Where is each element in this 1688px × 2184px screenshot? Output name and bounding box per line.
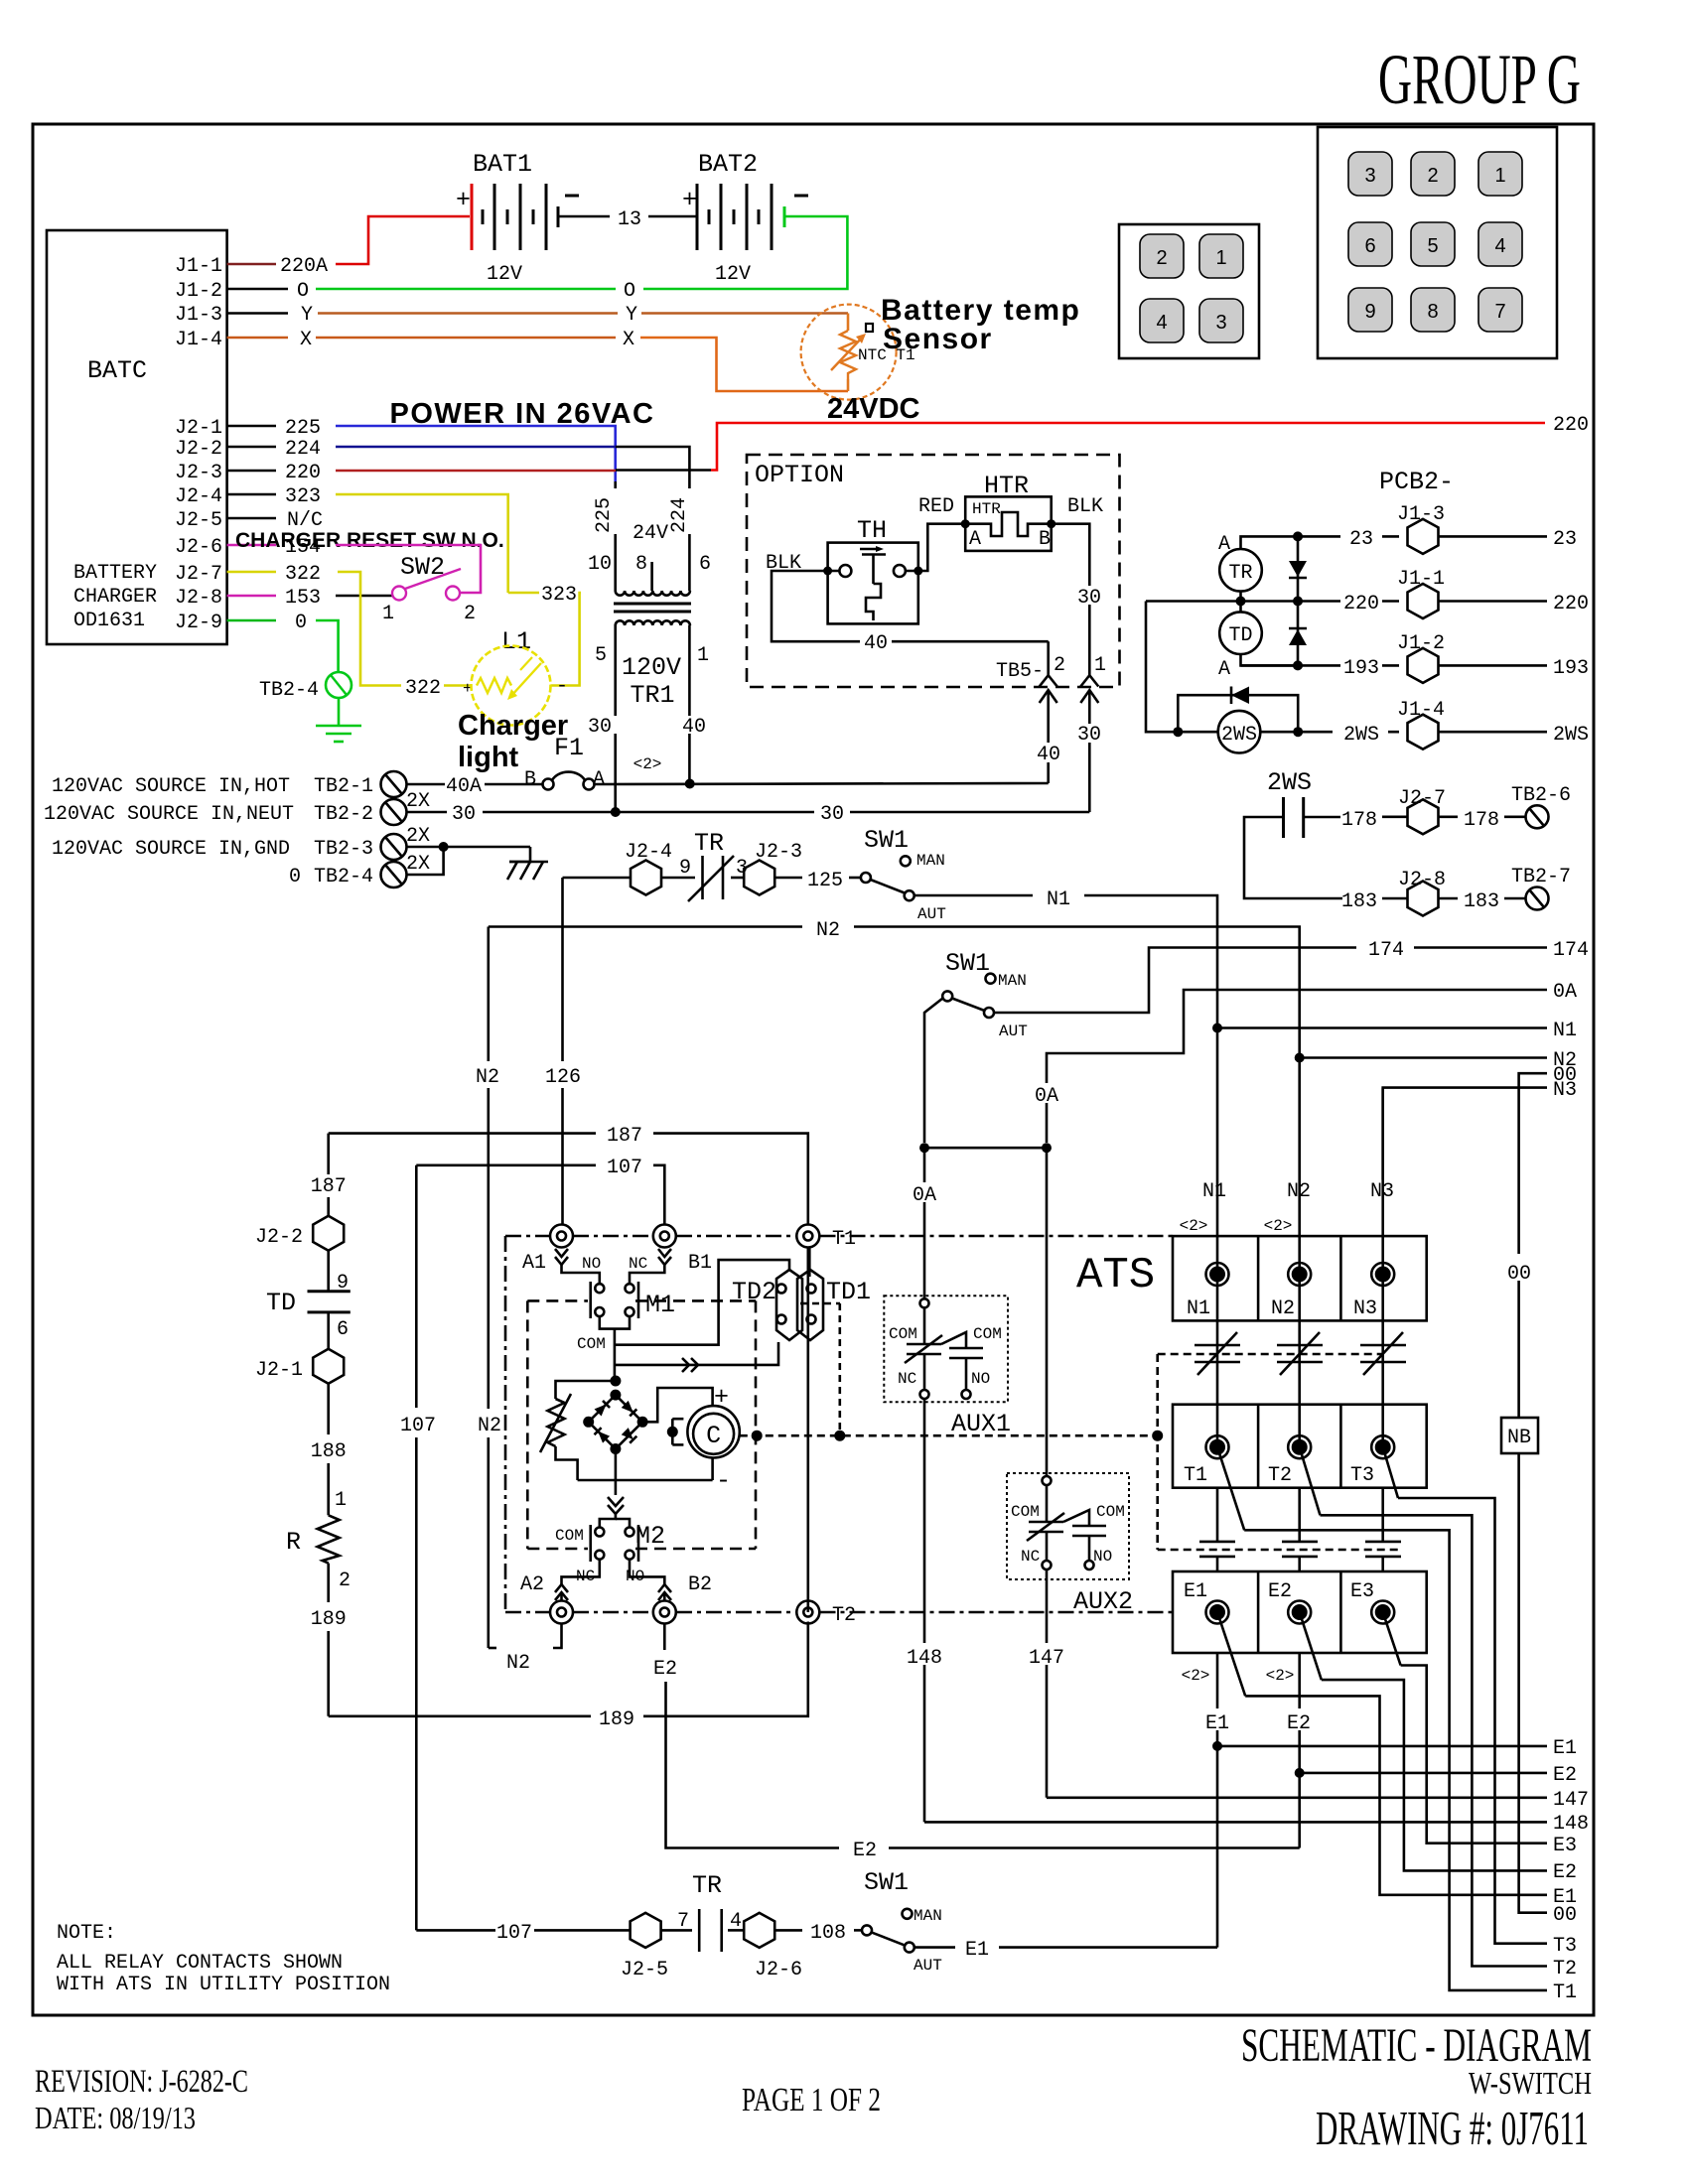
relay M2 contacts bbox=[555, 1522, 665, 1585]
svg-text:N2: N2 bbox=[816, 919, 840, 942]
svg-text:2: 2 bbox=[464, 603, 476, 625]
svg-text:TR: TR bbox=[692, 1871, 722, 1900]
svg-text:6: 6 bbox=[1364, 235, 1375, 257]
svg-text:T1: T1 bbox=[1553, 1981, 1577, 2004]
svg-text:225: 225 bbox=[593, 497, 616, 533]
svg-text:2: 2 bbox=[1156, 247, 1167, 269]
svg-text:<2>: <2> bbox=[1266, 1667, 1295, 1685]
svg-text:24V: 24V bbox=[633, 522, 668, 545]
svg-text:BLK: BLK bbox=[1067, 495, 1103, 518]
switch SW1 lower auto bbox=[924, 949, 1028, 1143]
screw terminal TB2-4 lower bbox=[381, 853, 431, 887]
svg-text:40A: 40A bbox=[446, 775, 482, 798]
wire 40 fuse to TB5-2 bbox=[595, 755, 1049, 789]
terminal T1 bbox=[796, 1225, 856, 1613]
svg-text:1: 1 bbox=[697, 644, 709, 667]
svg-text:TB2-4: TB2-4 bbox=[259, 679, 319, 702]
transformer TR1 primary leads bbox=[588, 470, 711, 591]
svg-text:+: + bbox=[456, 186, 471, 214]
svg-text:TH: TH bbox=[857, 516, 887, 545]
svg-text:TR1: TR1 bbox=[630, 681, 674, 710]
svg-text:174: 174 bbox=[1553, 939, 1589, 962]
svg-text:T1: T1 bbox=[832, 1228, 856, 1251]
wire 188 bbox=[311, 1384, 347, 1516]
motor C bbox=[667, 1383, 740, 1495]
wire 178 row with connector J2-7 and TB2-6 bbox=[1341, 784, 1571, 834]
svg-text:J2-5: J2-5 bbox=[621, 1959, 668, 1981]
terminal A1 bbox=[522, 1225, 600, 1285]
svg-text:10: 10 bbox=[588, 553, 612, 576]
svg-text:9: 9 bbox=[1364, 301, 1375, 323]
svg-text:N1: N1 bbox=[1553, 1020, 1577, 1042]
svg-text:E2: E2 bbox=[1553, 1861, 1577, 1884]
wire HTR B down to TB5-1 bbox=[1052, 524, 1104, 676]
wire 225 blue to transformer primary bbox=[336, 426, 616, 481]
svg-text:2X: 2X bbox=[406, 790, 430, 813]
wire 153 to SW2 pole 1 bbox=[336, 595, 392, 598]
svg-text:183: 183 bbox=[1464, 890, 1499, 913]
svg-text:<2>: <2> bbox=[1182, 1667, 1210, 1685]
svg-text:A: A bbox=[1218, 658, 1230, 681]
svg-text:J2-2: J2-2 bbox=[175, 438, 222, 461]
terminal TB5-1 bbox=[1077, 654, 1106, 812]
svg-text:8: 8 bbox=[1427, 301, 1438, 323]
terminal T2 bbox=[796, 1601, 856, 1628]
svg-text:1: 1 bbox=[1094, 654, 1106, 677]
pin J1-1 bbox=[175, 255, 328, 278]
svg-text:1: 1 bbox=[382, 603, 394, 625]
svg-text:2: 2 bbox=[1427, 165, 1438, 187]
wire 0 green J2-9 to TB2-4 screw bbox=[316, 620, 339, 672]
svg-text:MAN: MAN bbox=[916, 852, 945, 870]
svg-text:J2-5: J2-5 bbox=[175, 509, 222, 532]
svg-text:189: 189 bbox=[311, 1608, 347, 1631]
svg-text:A: A bbox=[593, 768, 605, 791]
connector J2-2 bbox=[255, 1216, 344, 1251]
relay contact TR bottom row with J2-5 J2-6 bbox=[416, 1871, 862, 1981]
svg-text:J1-4: J1-4 bbox=[1397, 699, 1445, 722]
svg-text:2WS: 2WS bbox=[1221, 724, 1257, 747]
svg-text:J2-6: J2-6 bbox=[755, 1959, 802, 1981]
svg-text:Y: Y bbox=[301, 304, 313, 327]
svg-text:AUX1: AUX1 bbox=[951, 1410, 1011, 1438]
svg-text:193: 193 bbox=[1343, 657, 1379, 680]
svg-text:<2>: <2> bbox=[1264, 1217, 1293, 1235]
ATS E row boxes bbox=[1173, 1571, 1427, 1685]
svg-text:-: - bbox=[556, 675, 568, 698]
svg-text:322: 322 bbox=[285, 563, 321, 586]
svg-text:B: B bbox=[1039, 528, 1051, 551]
svg-text:ALL RELAY CONTACTS SHOWN: ALL RELAY CONTACTS SHOWN bbox=[57, 1952, 343, 1975]
svg-text:DATE: 08/19/13: DATE: 08/19/13 bbox=[35, 2100, 196, 2135]
svg-text:126: 126 bbox=[545, 1066, 581, 1089]
svg-text:6: 6 bbox=[337, 1318, 349, 1341]
wire TH left to 40 leg bbox=[772, 571, 1049, 641]
svg-text:23: 23 bbox=[1349, 528, 1373, 551]
E row blade taps to right rails bbox=[1217, 1612, 1547, 1895]
timer contact TD bbox=[266, 1251, 351, 1349]
svg-text:N3: N3 bbox=[1353, 1297, 1377, 1320]
svg-text:E3: E3 bbox=[1553, 1835, 1577, 1857]
svg-text:TB2-2: TB2-2 bbox=[314, 803, 373, 826]
svg-text:MAN: MAN bbox=[914, 1907, 942, 1925]
wire M1 COM to TD2 and bridge bbox=[615, 1260, 789, 1381]
svg-text:OD1631: OD1631 bbox=[73, 610, 145, 632]
pin J1-2 bbox=[175, 280, 309, 303]
relay coil 2WS with bypass diode bbox=[1146, 602, 1303, 753]
ATS transfer blades N to T bbox=[1195, 1275, 1406, 1447]
svg-text:TB2-3: TB2-3 bbox=[314, 838, 373, 861]
svg-text:J2-8: J2-8 bbox=[1398, 869, 1446, 891]
svg-text:N1: N1 bbox=[1047, 888, 1070, 911]
wire 224 navy to transformer primary bbox=[336, 447, 689, 470]
dashed motor linkage to ATS bbox=[740, 1354, 1399, 1550]
svg-text:TD: TD bbox=[1228, 624, 1252, 647]
svg-text:NC: NC bbox=[898, 1370, 916, 1388]
svg-text:1: 1 bbox=[335, 1489, 347, 1512]
pin J2-6 bbox=[175, 536, 321, 559]
svg-text:O: O bbox=[297, 280, 309, 303]
wire E2 row from B2 label bbox=[839, 1838, 889, 1862]
svg-text:174: 174 bbox=[1368, 939, 1404, 962]
svg-text:-: - bbox=[716, 1466, 731, 1495]
svg-text:107: 107 bbox=[607, 1157, 642, 1179]
relay contact TR with J2-4 J2-3 bbox=[563, 829, 862, 901]
wire 187 row bbox=[329, 1125, 808, 1225]
svg-text:Charger: Charger bbox=[458, 710, 568, 742]
svg-text:107: 107 bbox=[400, 1415, 436, 1437]
svg-text:T2: T2 bbox=[832, 1604, 856, 1627]
svg-text:+: + bbox=[682, 186, 697, 214]
svg-text:N1: N1 bbox=[1202, 1180, 1226, 1203]
wire 193 row with connector J1-2 bbox=[1241, 632, 1590, 683]
svg-text:J2-1: J2-1 bbox=[175, 417, 222, 440]
fuse F1 bbox=[524, 734, 605, 791]
switch SW1 upper bbox=[861, 826, 946, 923]
svg-text:NO: NO bbox=[582, 1255, 601, 1273]
transformer TR1 primary coil bbox=[616, 591, 690, 596]
svg-text:J1-3: J1-3 bbox=[1397, 503, 1445, 526]
BATC battery charger box bbox=[47, 230, 227, 644]
svg-text:B1: B1 bbox=[688, 1252, 712, 1275]
svg-text:9: 9 bbox=[679, 857, 691, 880]
svg-text:TR: TR bbox=[1228, 562, 1252, 585]
svg-text:BATC: BATC bbox=[87, 356, 147, 385]
screw terminal TB2-2 bbox=[381, 790, 431, 825]
terminal B1 bbox=[630, 1225, 712, 1285]
svg-text:0A: 0A bbox=[913, 1184, 936, 1207]
svg-text:TB2-6: TB2-6 bbox=[1511, 784, 1571, 807]
wire N1 right rail bbox=[1212, 1020, 1577, 1042]
svg-text:108: 108 bbox=[810, 1922, 846, 1945]
wire 40A from TB2-1 to fuse bbox=[407, 774, 544, 798]
svg-text:A1: A1 bbox=[522, 1252, 546, 1275]
svg-text:193: 193 bbox=[1553, 657, 1589, 680]
svg-text:BAT2: BAT2 bbox=[698, 150, 758, 179]
wire 00 right rail to NB column bbox=[1519, 1064, 1577, 1254]
wire TH to HTR A bbox=[906, 524, 965, 571]
svg-text:X: X bbox=[623, 329, 634, 351]
svg-text:O: O bbox=[624, 280, 635, 303]
svg-text:COM: COM bbox=[973, 1325, 1002, 1343]
capacitor 2WS contact bbox=[1244, 768, 1342, 898]
connector pin grid 2x2 bbox=[1119, 224, 1259, 358]
svg-text:AUT: AUT bbox=[917, 905, 946, 923]
svg-text:A: A bbox=[969, 528, 981, 551]
wire 187 column J2-2 TD J2-1 R chain bbox=[311, 1134, 347, 1216]
pin J2-5 bbox=[175, 509, 323, 532]
svg-text:323: 323 bbox=[285, 485, 321, 508]
svg-text:322: 322 bbox=[405, 677, 441, 700]
svg-text:B2: B2 bbox=[688, 1573, 712, 1596]
svg-text:2X: 2X bbox=[406, 853, 430, 876]
svg-text:J1-4: J1-4 bbox=[175, 329, 222, 351]
right rail labels E3 E2 E1 bbox=[1553, 1835, 1577, 1909]
svg-text:J2-3: J2-3 bbox=[175, 462, 222, 484]
svg-text:T2: T2 bbox=[1268, 1464, 1292, 1487]
svg-text:MAN: MAN bbox=[998, 972, 1027, 990]
svg-text:COM: COM bbox=[889, 1325, 917, 1343]
svg-text:TB2-4: TB2-4 bbox=[314, 866, 373, 888]
time delay contacts TD2 TD1 bbox=[732, 1248, 871, 1436]
svg-text:AUT: AUT bbox=[914, 1957, 942, 1975]
svg-text:COM: COM bbox=[1011, 1503, 1040, 1521]
svg-text:OPTION: OPTION bbox=[755, 461, 844, 489]
svg-text:224: 224 bbox=[668, 497, 691, 533]
svg-text:<2>: <2> bbox=[633, 755, 662, 773]
svg-text:TD1: TD1 bbox=[826, 1278, 871, 1306]
svg-text:C: C bbox=[706, 1422, 721, 1450]
bridge rectifier bbox=[583, 1376, 647, 1455]
wire Y to battery temp sensor bbox=[318, 304, 848, 327]
svg-text:220: 220 bbox=[285, 462, 321, 484]
svg-text:light: light bbox=[458, 742, 519, 773]
svg-text:RED: RED bbox=[918, 495, 954, 518]
transformer TR1 secondary coil bbox=[616, 620, 690, 625]
svg-text:2: 2 bbox=[339, 1570, 351, 1592]
ATS T row boxes bbox=[1173, 1405, 1427, 1488]
relay coil TD bbox=[1218, 612, 1298, 681]
svg-text:E2: E2 bbox=[1268, 1580, 1292, 1603]
wire N2 row bbox=[489, 919, 1300, 1058]
svg-text:R: R bbox=[286, 1528, 301, 1557]
wire 147 from AUX2 down bbox=[1028, 1570, 1065, 1798]
svg-text:HTR: HTR bbox=[972, 500, 1001, 518]
varistor bbox=[540, 1381, 615, 1480]
connector pin grid 3x3 bbox=[1318, 127, 1557, 358]
label 40 inside option bbox=[860, 631, 892, 655]
chassis ground bbox=[507, 847, 548, 880]
wire 2WS row with connector J1-4 bbox=[1298, 699, 1589, 750]
pin J2-4 bbox=[175, 485, 321, 508]
svg-text:120VAC SOURCE IN,NEUT: 120VAC SOURCE IN,NEUT bbox=[44, 803, 294, 826]
pin J2-9 bbox=[175, 612, 307, 634]
svg-text:J2-6: J2-6 bbox=[175, 536, 222, 559]
screw terminal TB2-3 bbox=[381, 825, 431, 860]
T row blade taps to right rails bbox=[1217, 1447, 1547, 1990]
svg-text:SW1: SW1 bbox=[864, 1868, 909, 1897]
wire motor output chevrons to M2 bbox=[600, 1497, 630, 1528]
battery BAT2 bbox=[682, 150, 808, 286]
svg-text:SW1: SW1 bbox=[864, 826, 909, 855]
svg-text:W-SWITCH: W-SWITCH bbox=[1469, 2065, 1592, 2101]
svg-text:E2: E2 bbox=[853, 1840, 877, 1862]
resistor R bbox=[286, 1515, 340, 1563]
relay coil TR bbox=[1218, 533, 1298, 612]
svg-text:2WS: 2WS bbox=[1553, 724, 1589, 747]
wire 174 from SW1 to right rail bbox=[994, 939, 1589, 1013]
svg-text:120VAC SOURCE IN,GND: 120VAC SOURCE IN,GND bbox=[52, 838, 290, 861]
wire 323 yellow J2-4 to label bbox=[336, 494, 581, 686]
svg-text:DRAWING #: 0J7611: DRAWING #: 0J7611 bbox=[1316, 2101, 1589, 2155]
wire 107 row bbox=[400, 1157, 664, 1930]
svg-text:REVISION: J-6282-C: REVISION: J-6282-C bbox=[35, 2064, 248, 2100]
svg-text:NO: NO bbox=[971, 1370, 990, 1388]
svg-text:220: 220 bbox=[1553, 414, 1589, 437]
svg-text:E2: E2 bbox=[1287, 1712, 1311, 1735]
svg-text:148: 148 bbox=[1553, 1813, 1589, 1836]
svg-text:E3: E3 bbox=[1350, 1580, 1374, 1603]
wire N2 vertical bbox=[476, 927, 501, 1649]
wire 0A from right rail to AUX2 column bbox=[1033, 981, 1577, 1143]
svg-text:SW1: SW1 bbox=[945, 949, 990, 978]
wire 126 vertical to A1 bbox=[545, 878, 581, 1225]
svg-text:5: 5 bbox=[1427, 235, 1438, 257]
wire 220 row with connector J1-1 bbox=[1146, 568, 1589, 618]
svg-text:0A: 0A bbox=[1553, 981, 1577, 1004]
svg-text:PAGE 1 OF 2: PAGE 1 OF 2 bbox=[742, 2082, 881, 2118]
wire 148 from AUX1 down bbox=[906, 1399, 943, 1822]
pin J1-4 bbox=[175, 329, 312, 351]
svg-text:178: 178 bbox=[1341, 809, 1377, 832]
svg-text:7: 7 bbox=[677, 1910, 689, 1933]
svg-text:E1: E1 bbox=[1184, 1580, 1207, 1603]
svg-text:N1: N1 bbox=[1187, 1297, 1210, 1320]
svg-text:COM: COM bbox=[555, 1527, 584, 1545]
wire bridge plus to motor bbox=[642, 1388, 713, 1422]
wire N3 right rail to ATS column bbox=[1383, 1079, 1577, 1180]
svg-text:7: 7 bbox=[1494, 301, 1505, 323]
svg-text:N2: N2 bbox=[478, 1415, 501, 1437]
svg-text:30: 30 bbox=[820, 803, 844, 826]
pin J2-7 bbox=[175, 563, 321, 586]
svg-text:220A: 220A bbox=[280, 255, 328, 278]
wire bridge minus motor minus bbox=[578, 1449, 713, 1496]
svg-text:225: 225 bbox=[285, 417, 321, 440]
svg-text:153: 153 bbox=[285, 587, 321, 610]
svg-text:Sensor: Sensor bbox=[883, 323, 993, 355]
pin J2-1 bbox=[175, 417, 321, 440]
svg-text:M2: M2 bbox=[635, 1522, 665, 1551]
svg-text:NC: NC bbox=[1021, 1548, 1040, 1566]
svg-text:NC: NC bbox=[629, 1255, 647, 1273]
svg-text:T2: T2 bbox=[1553, 1958, 1577, 1980]
svg-text:N2: N2 bbox=[1271, 1297, 1295, 1320]
rails T3 T2 T1 labels bbox=[1553, 1935, 1577, 2004]
terminal B2 bbox=[653, 1573, 1300, 1848]
svg-text:B: B bbox=[524, 768, 536, 791]
svg-text:J2-9: J2-9 bbox=[175, 612, 222, 634]
svg-text:3: 3 bbox=[1364, 165, 1375, 187]
dash-dot linkage row A2 B2 T2 bbox=[505, 1611, 1175, 1614]
svg-text:<2>: <2> bbox=[1180, 1217, 1208, 1235]
svg-text:X: X bbox=[300, 329, 312, 351]
svg-text:4: 4 bbox=[1494, 235, 1505, 257]
svg-text:125: 125 bbox=[807, 870, 843, 892]
terminal A2 bbox=[506, 1573, 573, 1675]
svg-text:0A: 0A bbox=[1035, 1085, 1058, 1108]
wire TB2-3 ground bbox=[407, 842, 531, 852]
wire 0 green BAT2 minus to J1-2 bbox=[316, 216, 847, 303]
svg-text:E1: E1 bbox=[1205, 1712, 1229, 1735]
wire 148 rail bbox=[924, 1813, 1589, 1836]
svg-text:189: 189 bbox=[599, 1708, 634, 1731]
dashed enclosure box M1 M2 bridge bbox=[527, 1300, 756, 1549]
pin J2-2 bbox=[175, 438, 321, 461]
svg-text:120V: 120V bbox=[622, 653, 681, 682]
svg-text:178: 178 bbox=[1464, 809, 1499, 832]
svg-text:M1: M1 bbox=[645, 1291, 675, 1319]
svg-text:187: 187 bbox=[311, 1175, 347, 1198]
svg-text:AUT: AUT bbox=[999, 1023, 1028, 1040]
svg-text:N2: N2 bbox=[476, 1066, 499, 1089]
svg-text:188: 188 bbox=[311, 1440, 347, 1463]
svg-text:147: 147 bbox=[1553, 1789, 1589, 1812]
svg-text:148: 148 bbox=[907, 1647, 942, 1670]
wire 322 yellow J2-7 to charger light bbox=[338, 572, 568, 700]
svg-text:24VDC: 24VDC bbox=[827, 393, 920, 425]
ATS N row column wires and labels bbox=[1180, 1028, 1395, 1287]
pin J2-8 bbox=[175, 587, 321, 610]
aux switch AUX2 bbox=[1007, 1473, 1133, 1616]
svg-text:4: 4 bbox=[1156, 312, 1167, 334]
dash-dot linkage row A1 B1 T1 bbox=[505, 1235, 1173, 1238]
svg-text:TR: TR bbox=[694, 829, 724, 858]
svg-text:BAT1: BAT1 bbox=[473, 150, 532, 179]
svg-text:NO: NO bbox=[1093, 1548, 1112, 1566]
wire N2 right rail bbox=[1295, 1049, 1577, 1072]
svg-text:23: 23 bbox=[1553, 528, 1577, 551]
svg-text:J1-3: J1-3 bbox=[175, 304, 222, 327]
svg-text:E2: E2 bbox=[1553, 1764, 1577, 1787]
svg-text:147: 147 bbox=[1029, 1647, 1064, 1670]
pin J1-3 bbox=[175, 304, 313, 327]
svg-text:30: 30 bbox=[588, 716, 612, 739]
wire 189 row bbox=[329, 1622, 808, 1732]
svg-text:1: 1 bbox=[1494, 165, 1505, 187]
svg-text:COM: COM bbox=[577, 1335, 606, 1353]
wire E1 rail bbox=[1217, 1737, 1577, 1760]
diode column with two diodes bbox=[1289, 531, 1307, 670]
svg-text:CHARGER: CHARGER bbox=[73, 586, 157, 609]
transformer TR1 core bbox=[614, 604, 691, 612]
svg-text:TB5-: TB5- bbox=[996, 660, 1044, 683]
wire 24VDC red rail to 220 bbox=[711, 393, 1589, 471]
svg-text:J2-8: J2-8 bbox=[175, 587, 222, 610]
svg-text:T3: T3 bbox=[1350, 1464, 1374, 1487]
svg-text:E1: E1 bbox=[1553, 1737, 1577, 1760]
svg-text:COM: COM bbox=[1096, 1503, 1125, 1521]
svg-text:12V: 12V bbox=[715, 263, 751, 286]
switch SW1 bottom bbox=[862, 1868, 942, 1975]
svg-text:220: 220 bbox=[1553, 593, 1589, 615]
screw terminal TB2-4 green bbox=[259, 672, 352, 702]
svg-text:40: 40 bbox=[864, 632, 888, 655]
wire 147 rail bbox=[1047, 1789, 1589, 1812]
svg-text:J2-1: J2-1 bbox=[255, 1359, 303, 1382]
svg-text:N3: N3 bbox=[1553, 1079, 1577, 1102]
svg-text:WITH ATS IN UTILITY POSITION: WITH ATS IN UTILITY POSITION bbox=[57, 1974, 390, 1996]
